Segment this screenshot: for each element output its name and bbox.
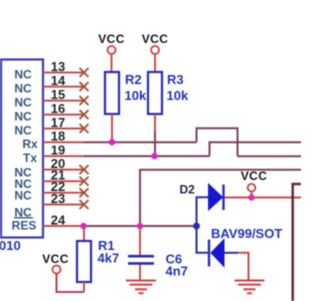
pin 24 stub RES (43, 225, 84, 227)
pin 23 stub (43, 204, 84, 206)
svg-text:R3: R3 (167, 72, 184, 87)
pin 20 stub (43, 169, 84, 171)
wire RES net horizontal (84, 225, 197, 227)
svg-text:NC: NC (14, 82, 32, 96)
VCC symbol P3 circle (248, 184, 256, 192)
node junction R1/RES (80, 223, 86, 229)
svg-text:R2: R2 (125, 72, 142, 87)
diode D2 lower cathode bar (208, 240, 210, 267)
node junction BAV99 common (blue) (193, 223, 200, 230)
resistor R2 body (105, 72, 119, 114)
svg-text:16: 16 (51, 101, 65, 116)
svg-text:NC: NC (14, 188, 32, 202)
svg-text:VCC: VCC (42, 252, 69, 266)
wire Rx net horizontal (84, 141, 197, 143)
svg-text:BAV99/SOT: BAV99/SOT (211, 226, 282, 241)
wire C6 bottom to ground (139, 265, 141, 281)
capacitor C6 bottom plate (128, 262, 154, 265)
wire VCC P2 to R3 (154, 54, 156, 72)
pin 14 no-connect X (80, 82, 89, 91)
diode D2 upper triangle (209, 184, 223, 210)
capacitor C6 top plate (128, 255, 154, 258)
node junction R3/Tx (151, 153, 157, 159)
svg-text:14: 14 (51, 73, 66, 88)
svg-text:NC: NC (14, 124, 32, 138)
wire R2 bottom to Rx net (111, 114, 113, 142)
pin 19 stub Tx (43, 155, 84, 157)
node junction VCC/D2 (248, 194, 254, 200)
wire R3 bottom crossing Rx net to Tx net (154, 114, 156, 131)
svg-text:VCC: VCC (241, 169, 268, 183)
svg-text:RES: RES (12, 219, 37, 233)
pin 23 label NC underline (14, 217, 33, 219)
VCC symbol P2 circle (151, 46, 159, 54)
wire lower diode anode right (224, 252, 238, 254)
ground symbol G2 (235, 281, 265, 294)
resistor R3 body (148, 72, 162, 114)
svg-text:24: 24 (51, 213, 66, 228)
svg-text:Tx: Tx (23, 151, 37, 165)
ground symbol G1 (126, 281, 156, 294)
pin 18 stub Rx (43, 141, 84, 143)
wire BAV99 common up to D2 anode (197, 197, 209, 226)
wire Tx net step up (210, 142, 302, 156)
svg-text:4n7: 4n7 (166, 264, 188, 279)
pin 21 stub (43, 180, 84, 182)
node junction R2/Rx (109, 139, 115, 145)
wire R1 bottom to VCC P4 (57, 274, 85, 293)
svg-text:VCC: VCC (98, 32, 125, 46)
pin 15 stub (43, 100, 84, 102)
svg-text:NC: NC (14, 68, 32, 82)
wire Rx net step up (197, 128, 238, 156)
node junction C6/RES (137, 223, 143, 229)
wire VCC P3 stem (251, 192, 253, 198)
svg-text:13: 13 (51, 59, 65, 74)
svg-text:10k: 10k (167, 88, 189, 103)
pin 13 stub (43, 72, 84, 74)
pin 16 no-connect X (80, 110, 89, 119)
pin 17 no-connect X (80, 124, 89, 133)
pin 22 no-connect X (80, 188, 89, 197)
diode D2 lower triangle (points left) (211, 240, 224, 267)
connector/IC box at right edge (293, 184, 301, 301)
resistor R1 body (77, 241, 91, 282)
diode D2 upper cathode bar (222, 185, 224, 211)
pin 17 stub (43, 128, 84, 130)
pin 21 no-connect X (80, 177, 89, 186)
wire Tx net horizontal (84, 155, 210, 157)
wire RES to R1 top (83, 226, 85, 241)
svg-text:NC: NC (14, 96, 32, 110)
wire R1 bottom (83, 282, 85, 292)
pin 14 stub (43, 86, 84, 88)
pin 20 no-connect X (80, 165, 89, 174)
wire BAV99 common down to lower diode (197, 226, 209, 253)
wire VCC P1 to R2 (111, 54, 113, 72)
wire VCC node to right edge (252, 197, 302, 199)
pin 23 no-connect X (80, 200, 89, 209)
pin 15 no-connect X (80, 96, 89, 105)
VCC symbol P4 circle (53, 266, 61, 274)
pin 22 stub (43, 192, 84, 194)
pin 13 no-connect X (80, 68, 89, 77)
svg-text:15: 15 (51, 87, 65, 102)
svg-text:NC: NC (14, 110, 32, 124)
svg-text:10k: 10k (125, 88, 147, 103)
svg-text:D2: D2 (180, 183, 196, 197)
svg-text:Rx: Rx (22, 137, 38, 151)
svg-text:4k7: 4k7 (98, 251, 120, 266)
svg-text:010: 010 (0, 238, 21, 253)
wire upper net from corner to right edge (140, 170, 301, 226)
pin 16 stub (43, 114, 84, 116)
svg-text:18: 18 (51, 129, 65, 144)
wire lower diode anode to ground (238, 253, 249, 280)
svg-text:VCC: VCC (142, 32, 169, 46)
wire D2 cathode to VCC node (225, 197, 252, 199)
wire C6 top (139, 226, 141, 255)
VCC symbol P1 circle (108, 46, 116, 54)
svg-text:23: 23 (51, 191, 65, 206)
IC U1 box (1, 60, 43, 238)
wire Rx net to right edge (238, 155, 302, 157)
